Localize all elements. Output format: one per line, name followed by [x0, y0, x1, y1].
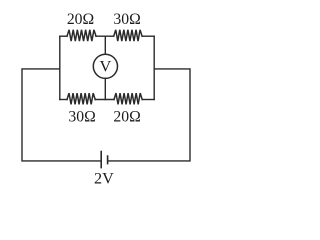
svg-text:30Ω: 30Ω: [113, 11, 140, 28]
svg-text:2V: 2V: [94, 169, 114, 187]
svg-text:20Ω: 20Ω: [113, 109, 140, 126]
svg-text:20Ω: 20Ω: [67, 11, 94, 28]
svg-text:V: V: [100, 57, 112, 76]
svg-text:30Ω: 30Ω: [68, 109, 95, 126]
